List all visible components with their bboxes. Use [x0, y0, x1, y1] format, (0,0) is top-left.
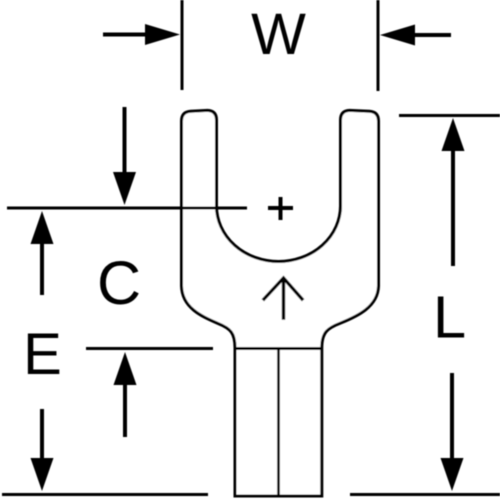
svg-text:L: L [433, 284, 466, 351]
svg-text:C: C [97, 249, 141, 317]
svg-text:E: E [23, 322, 62, 387]
svg-text:W: W [251, 2, 306, 67]
